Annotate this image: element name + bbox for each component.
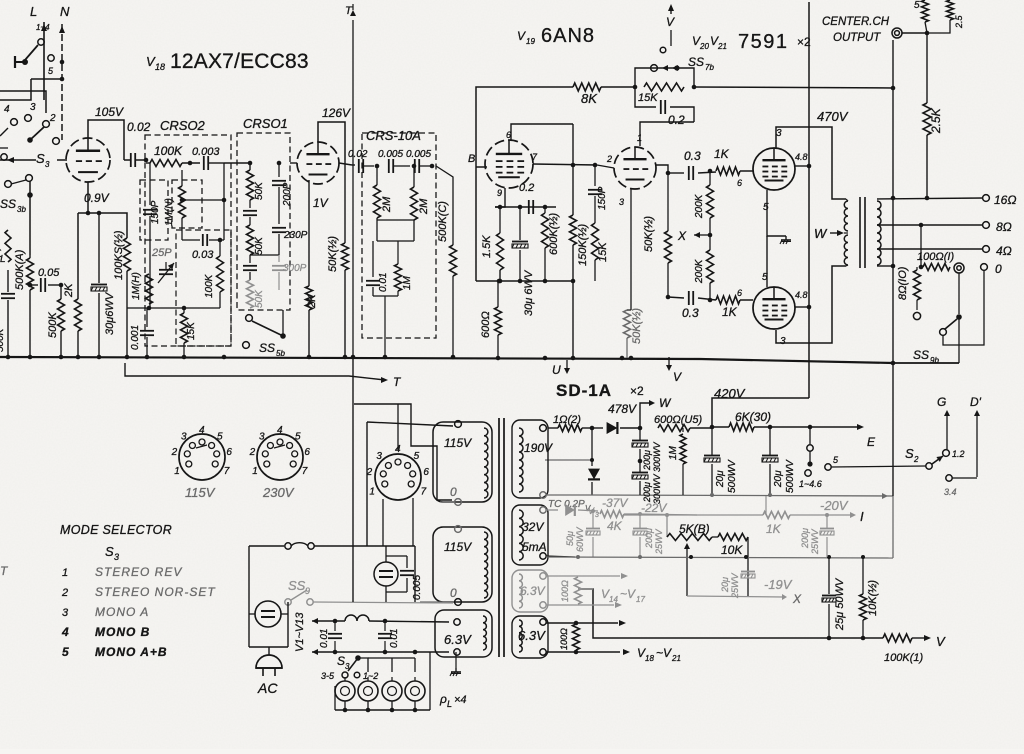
svg-text:7: 7 bbox=[224, 466, 230, 477]
switch 1~4.6 bbox=[809, 427, 811, 444]
capacitor 0.005 line bbox=[406, 556, 408, 568]
gray L wire bbox=[578, 588, 593, 590]
svg-text:500K: 500K bbox=[0, 327, 6, 352]
svg-text:0.3: 0.3 bbox=[684, 149, 701, 163]
svg-text:CENTER.CH: CENTER.CH bbox=[822, 16, 890, 28]
svg-text:0.05: 0.05 bbox=[38, 267, 60, 279]
resistor 1K bottom bbox=[716, 296, 740, 304]
wire row 281 bbox=[476, 280, 573, 282]
wire T line bbox=[125, 363, 385, 380]
heater row 652 bbox=[312, 649, 318, 655]
svg-text:×4: ×4 bbox=[454, 694, 467, 706]
socket wires bbox=[354, 404, 452, 500]
svg-text:1K: 1K bbox=[714, 147, 730, 161]
wire plate row bbox=[533, 164, 597, 165]
heater row 621 bbox=[312, 618, 318, 624]
svg-text:5b: 5b bbox=[276, 349, 285, 358]
wire T riser bottom bbox=[352, 357, 354, 602]
triode V18a bbox=[66, 138, 110, 182]
wire cathode to 100KS bbox=[88, 213, 127, 238]
svg-text:V: V bbox=[673, 370, 682, 384]
socket 115V bbox=[179, 434, 225, 480]
svg-text:126V: 126V bbox=[322, 106, 351, 120]
svg-text:150P: 150P bbox=[597, 186, 608, 210]
wire fuse right bbox=[414, 546, 416, 602]
svg-text:2: 2 bbox=[61, 587, 68, 599]
resistor 150K(1/2) bbox=[570, 215, 577, 245]
svg-text:7b: 7b bbox=[705, 63, 714, 72]
junction bbox=[543, 356, 548, 361]
resistor 5K(B) body bbox=[667, 534, 712, 541]
primary winding upper bbox=[484, 428, 488, 498]
wire bbox=[224, 162, 250, 164]
svg-text:1: 1 bbox=[369, 487, 375, 498]
resistor 4K gray bbox=[600, 511, 624, 518]
svg-text:25WV: 25WV bbox=[654, 528, 664, 555]
resistor 50K(1/2) c bbox=[667, 173, 669, 231]
wire right rail down bbox=[892, 363, 894, 496]
svg-text:300WV: 300WV bbox=[652, 473, 662, 504]
wire fuse left bbox=[248, 546, 250, 647]
svg-text:150K(½): 150K(½) bbox=[577, 223, 589, 266]
resistor 100ohm heater dark bbox=[573, 624, 580, 650]
svg-text:50K(½): 50K(½) bbox=[327, 236, 339, 272]
svg-text:0.02: 0.02 bbox=[348, 149, 368, 160]
primary terminal 115V top bbox=[455, 421, 462, 428]
svg-text:SS: SS bbox=[288, 578, 306, 593]
svg-text:~V: ~V bbox=[656, 646, 672, 660]
svg-text:30μ6WV: 30μ6WV bbox=[104, 291, 116, 335]
resistor 50K c bbox=[247, 280, 254, 308]
svg-text:0.01: 0.01 bbox=[319, 629, 330, 648]
svg-text:500K: 500K bbox=[47, 312, 59, 338]
capacitor 0.01 b bbox=[384, 621, 386, 631]
switch SS9b bbox=[958, 273, 960, 314]
switch contact 5 bbox=[48, 55, 54, 61]
switch SS5b bbox=[246, 315, 253, 322]
wire 105V plate bbox=[88, 120, 124, 160]
fuse bbox=[249, 545, 284, 547]
secondary winding 6.3V dark bbox=[519, 620, 522, 652]
gray row -20V bbox=[624, 514, 763, 516]
svg-text:17: 17 bbox=[636, 595, 645, 604]
capacitor 230P bbox=[278, 200, 280, 224]
svg-text:600Ω: 600Ω bbox=[480, 311, 492, 338]
gray bus 495 bbox=[594, 495, 893, 496]
svg-text:300WV: 300WV bbox=[652, 441, 662, 472]
wire heater 623 bbox=[546, 622, 576, 624]
primary winding lower bbox=[484, 532, 488, 598]
resistor 200K a bbox=[709, 171, 711, 185]
secondary 190V box bbox=[512, 420, 548, 498]
svg-text:15K: 15K bbox=[597, 242, 609, 262]
resistor 100K vert bbox=[219, 240, 221, 256]
junction bbox=[222, 355, 227, 360]
svg-text:ρ: ρ bbox=[439, 692, 447, 706]
svg-text:50K(½): 50K(½) bbox=[631, 308, 643, 344]
switch S2 3.4 bbox=[946, 475, 952, 481]
svg-text:3: 3 bbox=[595, 512, 599, 519]
svg-text:SD-1A: SD-1A bbox=[556, 381, 612, 400]
output transformer secondary bbox=[877, 201, 881, 265]
svg-text:6: 6 bbox=[506, 130, 511, 140]
resistor 100K(1) bbox=[883, 634, 912, 642]
svg-text:4Ω: 4Ω bbox=[996, 244, 1012, 258]
svg-text:200μ: 200μ bbox=[642, 450, 652, 471]
svg-text:60WV: 60WV bbox=[575, 526, 585, 552]
capacitor 150P bbox=[149, 163, 151, 205]
svg-text:21: 21 bbox=[671, 654, 681, 663]
junction bbox=[182, 355, 187, 360]
svg-text:0: 0 bbox=[450, 586, 457, 600]
svg-text:25WV: 25WV bbox=[810, 528, 820, 555]
primary terminal mid bbox=[455, 499, 462, 506]
wire grid bbox=[0, 159, 5, 161]
junction bbox=[28, 355, 33, 360]
terminal bbox=[5, 181, 12, 188]
svg-text:105V: 105V bbox=[95, 105, 124, 119]
svg-text:1K: 1K bbox=[766, 522, 782, 536]
svg-text:1: 1 bbox=[637, 133, 642, 143]
svg-text:CRS-10A: CRS-10A bbox=[366, 128, 421, 143]
wire 0 row bbox=[877, 265, 893, 267]
svg-text:MODE SELECTOR: MODE SELECTOR bbox=[60, 523, 172, 537]
svg-text:X: X bbox=[677, 229, 687, 243]
wire to V19b grid bbox=[640, 122, 694, 146]
capacitor 20u500WV a bbox=[711, 427, 713, 456]
svg-text:25P: 25P bbox=[151, 247, 172, 259]
svg-text:2M: 2M bbox=[418, 198, 430, 215]
svg-text:500WV: 500WV bbox=[785, 459, 796, 493]
svg-text:3: 3 bbox=[376, 451, 382, 462]
svg-text:18: 18 bbox=[645, 654, 654, 663]
svg-text:1: 1 bbox=[174, 466, 180, 477]
svg-text:18: 18 bbox=[155, 62, 165, 72]
wire grid bbox=[290, 162, 297, 164]
dashed box CRS-10A bbox=[362, 133, 436, 338]
capacitor chain bbox=[249, 200, 251, 208]
junction bbox=[307, 355, 312, 360]
junction bbox=[59, 355, 64, 360]
svg-text:0.005: 0.005 bbox=[412, 575, 423, 600]
wire plate V19b bbox=[656, 165, 668, 173]
svg-text:16Ω: 16Ω bbox=[994, 193, 1016, 207]
resistor 10K bbox=[718, 534, 748, 541]
svg-text:AC: AC bbox=[257, 680, 278, 696]
svg-text:6K(30): 6K(30) bbox=[735, 410, 771, 424]
svg-text:3: 3 bbox=[45, 160, 50, 169]
svg-text:25WV: 25WV bbox=[730, 572, 740, 599]
svg-text:500K(C): 500K(C) bbox=[437, 201, 449, 242]
resistor 100KS(1/2) bbox=[124, 238, 131, 271]
svg-text:100Ω: 100Ω bbox=[559, 628, 569, 650]
svg-text:0.005: 0.005 bbox=[406, 149, 431, 160]
svg-text:U: U bbox=[552, 363, 561, 377]
svg-text:200P: 200P bbox=[282, 182, 293, 207]
svg-text:1~4.6: 1~4.6 bbox=[799, 479, 822, 489]
svg-text:CRSO1: CRSO1 bbox=[243, 116, 288, 131]
svg-text:200μ: 200μ bbox=[800, 528, 810, 549]
transformer core bbox=[859, 197, 861, 268]
svg-text:300P: 300P bbox=[283, 263, 307, 274]
svg-text:6: 6 bbox=[304, 447, 310, 458]
svg-text:4: 4 bbox=[4, 104, 10, 115]
triode V19b bbox=[614, 147, 656, 189]
svg-text:5K(B): 5K(B) bbox=[679, 522, 710, 536]
svg-text:500K(A): 500K(A) bbox=[14, 249, 26, 290]
svg-text:0.01: 0.01 bbox=[378, 273, 389, 292]
gray wire bbox=[640, 514, 697, 515]
svg-text:D': D' bbox=[970, 395, 982, 409]
junction bbox=[145, 355, 150, 360]
resistor 2M a bbox=[376, 166, 378, 185]
resistor 2K cathode bbox=[75, 299, 82, 331]
svg-text:3: 3 bbox=[776, 128, 782, 139]
svg-text:4.8: 4.8 bbox=[795, 290, 808, 300]
heater winding coil bbox=[483, 616, 486, 650]
svg-text:600Ω(U5): 600Ω(U5) bbox=[654, 414, 702, 426]
wire grid V19b bbox=[597, 165, 614, 168]
junction bbox=[27, 192, 33, 198]
resistor 50K b bbox=[247, 225, 254, 255]
svg-text:2: 2 bbox=[606, 154, 612, 164]
junction bbox=[620, 356, 625, 361]
switch S3a arm bbox=[27, 137, 33, 143]
svg-text:21: 21 bbox=[717, 42, 727, 51]
capacitor 20u500WV b bbox=[769, 427, 771, 456]
svg-text:8K: 8K bbox=[581, 91, 598, 106]
heater winding 6.3V left box bbox=[435, 610, 492, 657]
secondary 32V box bbox=[512, 505, 548, 565]
svg-text:W: W bbox=[659, 396, 672, 410]
capacitor 50u60WV gray bbox=[592, 511, 594, 528]
svg-text:1V: 1V bbox=[313, 196, 329, 210]
svg-text:500WV: 500WV bbox=[727, 459, 738, 493]
diode SD-1A a bbox=[592, 427, 603, 429]
svg-text:5: 5 bbox=[763, 202, 769, 213]
secondary 6.3V dark box bbox=[512, 616, 548, 658]
svg-text:20: 20 bbox=[699, 42, 709, 51]
svg-text:0.3: 0.3 bbox=[682, 306, 699, 320]
node V top bbox=[670, 6, 672, 14]
svg-text:30μ 6WV: 30μ 6WV bbox=[523, 269, 535, 316]
svg-text:25μ 50WV: 25μ 50WV bbox=[834, 577, 846, 631]
wire 8ohm row bbox=[877, 224, 983, 226]
svg-text:5: 5 bbox=[414, 451, 420, 462]
svg-text:5: 5 bbox=[62, 645, 69, 659]
svg-text:E: E bbox=[867, 435, 876, 449]
socket wire pin bbox=[397, 404, 399, 450]
svg-text:0: 0 bbox=[450, 485, 457, 499]
svg-text:V1~V13: V1~V13 bbox=[294, 612, 306, 652]
resistor 15K bbox=[633, 85, 638, 90]
svg-text:V: V bbox=[588, 506, 595, 516]
svg-text:SS: SS bbox=[688, 55, 704, 69]
wire bbox=[31, 78, 62, 80]
svg-text:4: 4 bbox=[199, 425, 205, 436]
svg-text:4: 4 bbox=[61, 625, 69, 639]
socket wire 115 bbox=[367, 422, 453, 426]
wire cathode V19b bbox=[630, 189, 632, 310]
wire 16ohm row bbox=[877, 198, 983, 199]
capacitor 200u25WV b bbox=[826, 515, 828, 528]
power transformer primary box lower bbox=[433, 527, 492, 602]
svg-text:X: X bbox=[792, 592, 802, 606]
node W arrow 2 bbox=[640, 403, 650, 428]
resistor 100ohm heater gray bbox=[575, 577, 582, 604]
svg-text:478V: 478V bbox=[608, 402, 637, 416]
svg-text:470V: 470V bbox=[817, 109, 849, 124]
wire E row bbox=[710, 425, 715, 430]
svg-text:6: 6 bbox=[423, 467, 429, 478]
heater terminals bbox=[454, 619, 460, 625]
resistor 50K(1/2) cathode bbox=[624, 310, 631, 338]
wire 8K row bbox=[476, 87, 573, 167]
svg-text:100Ω(I): 100Ω(I) bbox=[917, 251, 954, 263]
power transformer primary box upper bbox=[433, 422, 492, 502]
svg-text:0.001: 0.001 bbox=[130, 325, 141, 350]
svg-text:200μ: 200μ bbox=[644, 528, 654, 549]
capacitor 0.2 bypass bbox=[635, 87, 656, 107]
svg-text:1M: 1M bbox=[402, 275, 413, 290]
diode SD-1A b bbox=[591, 428, 593, 466]
svg-text:1~2: 1~2 bbox=[363, 671, 378, 681]
resistor 15K bbox=[183, 308, 185, 313]
svg-text:6: 6 bbox=[226, 447, 232, 458]
svg-text:MONO B: MONO B bbox=[95, 625, 150, 639]
transformer core bbox=[498, 418, 500, 657]
secondary winding 6.3V gray bbox=[519, 574, 522, 608]
socket main bbox=[375, 454, 421, 500]
resistor 50K(1/2) plate load bbox=[344, 160, 346, 243]
capacitor 300P bbox=[278, 255, 280, 262]
svg-text:~V: ~V bbox=[620, 587, 636, 601]
wire plate out bbox=[339, 163, 352, 165]
wire plate V20 loop bbox=[776, 127, 846, 199]
svg-text:12AX7/ECC83: 12AX7/ECC83 bbox=[170, 50, 309, 73]
junction bbox=[343, 355, 348, 360]
wire plate row to 0.3 bbox=[668, 172, 684, 174]
svg-text:50K: 50K bbox=[254, 236, 265, 255]
resistor 15K b bbox=[592, 223, 599, 260]
svg-text:L: L bbox=[447, 699, 452, 709]
resistor 500K(A) bbox=[29, 255, 31, 258]
resistor 500K bbox=[60, 285, 62, 299]
svg-text:19: 19 bbox=[526, 37, 535, 46]
svg-text:V: V bbox=[666, 15, 675, 29]
capacitor 200u300WV b bbox=[639, 461, 641, 472]
svg-text:3.4: 3.4 bbox=[944, 487, 957, 497]
svg-text:0: 0 bbox=[995, 262, 1002, 276]
capacitor 0.02 coupling bbox=[130, 153, 132, 167]
svg-text:L: L bbox=[30, 4, 37, 19]
junction bbox=[351, 355, 356, 360]
capacitor 0.01 bbox=[372, 241, 374, 277]
svg-text:W: W bbox=[814, 226, 828, 241]
wire row bbox=[377, 219, 414, 221]
resistor 1M(N) bbox=[181, 170, 183, 186]
svg-text:-22V: -22V bbox=[641, 501, 667, 515]
svg-text:3: 3 bbox=[619, 197, 624, 207]
svg-text:8Ω: 8Ω bbox=[996, 220, 1012, 234]
svg-text:190V: 190V bbox=[524, 441, 553, 455]
resistor 500K(C) bbox=[436, 166, 453, 245]
svg-text:0.02: 0.02 bbox=[127, 120, 151, 134]
svg-text:2K: 2K bbox=[63, 283, 75, 298]
capacitor 0.01 a bbox=[334, 621, 336, 631]
line filter bbox=[255, 601, 281, 627]
svg-text:MONO A: MONO A bbox=[95, 605, 149, 619]
svg-text:-37V: -37V bbox=[602, 496, 628, 510]
svg-text:S: S bbox=[337, 654, 345, 668]
svg-text:1.5K: 1.5K bbox=[481, 235, 493, 258]
wire T riser bbox=[352, 20, 354, 357]
surge suppressor bbox=[374, 562, 398, 586]
pentode V20 bbox=[753, 148, 795, 190]
capacitor 0.001 bbox=[146, 308, 148, 327]
svg-text:150P: 150P bbox=[150, 200, 161, 224]
dashed box 150P bbox=[140, 180, 168, 240]
svg-text:4: 4 bbox=[277, 425, 283, 436]
pilot lamps bbox=[335, 681, 355, 701]
svg-text:230P: 230P bbox=[283, 230, 308, 241]
svg-text:G: G bbox=[937, 395, 946, 409]
dashed box CRSO2 bbox=[145, 135, 231, 346]
capacitor 30u6WV b bbox=[519, 207, 521, 240]
svg-text:230V: 230V bbox=[262, 485, 295, 500]
svg-text:1M: 1M bbox=[668, 445, 679, 460]
resistor top right 2 bbox=[947, 0, 954, 20]
svg-text:9: 9 bbox=[497, 188, 502, 198]
svg-text:0.2: 0.2 bbox=[519, 182, 534, 194]
dashed box 15K bbox=[176, 230, 231, 346]
svg-text:3: 3 bbox=[114, 552, 119, 562]
svg-text:0.005: 0.005 bbox=[378, 149, 403, 160]
pentode V19a bbox=[485, 140, 533, 188]
svg-text:STEREO NOR-SET: STEREO NOR-SET bbox=[95, 585, 216, 599]
resistor 8K bbox=[573, 83, 601, 91]
wire bbox=[223, 163, 225, 200]
wire 4ohm row bbox=[877, 248, 983, 250]
capacitor 25u50WV bbox=[828, 557, 830, 594]
gray row -37V bbox=[546, 509, 558, 511]
dashed box CRSO1 bbox=[237, 133, 290, 310]
svg-text:100KS(½): 100KS(½) bbox=[113, 230, 125, 280]
svg-text:7: 7 bbox=[302, 466, 308, 477]
gray heater row 2 bbox=[546, 604, 614, 606]
svg-text:3-5: 3-5 bbox=[321, 671, 335, 681]
svg-text:4K: 4K bbox=[607, 519, 623, 533]
svg-text:2: 2 bbox=[249, 447, 256, 458]
node X arrow bbox=[708, 233, 713, 238]
svg-text:7591: 7591 bbox=[738, 31, 789, 53]
wire row 308 bbox=[127, 307, 220, 309]
resistor 1M(H) bbox=[148, 266, 150, 274]
resistor 600ohm(U5) bbox=[658, 425, 690, 432]
resistor 200K b bbox=[709, 235, 711, 250]
svg-text:STEREO REV: STEREO REV bbox=[95, 565, 182, 579]
svg-text:100K: 100K bbox=[204, 273, 215, 298]
resistor 1.5K bbox=[499, 207, 501, 233]
svg-text:3: 3 bbox=[259, 432, 265, 443]
svg-text:0.2: 0.2 bbox=[668, 113, 685, 127]
svg-text:B: B bbox=[468, 153, 475, 165]
svg-text:10K: 10K bbox=[721, 543, 743, 557]
switch SS7b box bbox=[635, 68, 694, 87]
socket 230V bbox=[257, 434, 303, 480]
svg-text:2.5: 2.5 bbox=[954, 14, 964, 29]
ground heater bbox=[455, 652, 457, 668]
